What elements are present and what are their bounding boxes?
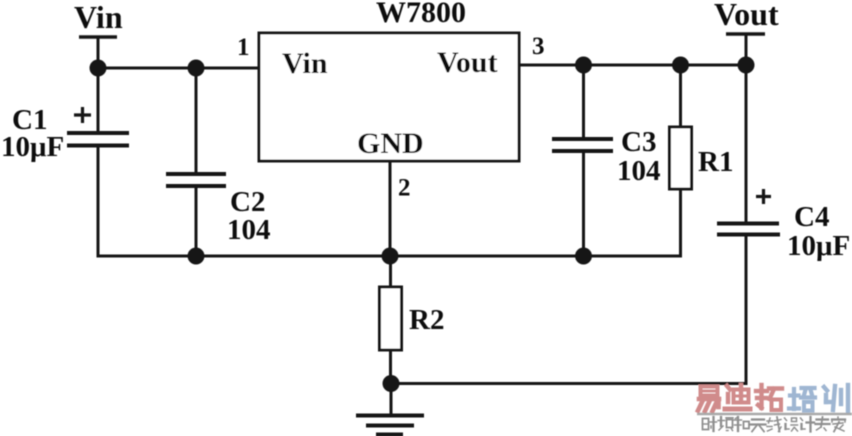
wire C1 bottom lead [97, 145, 100, 258]
wire C3 top lead [582, 65, 585, 139]
tagline char 和 [734, 417, 749, 431]
svg-text:C3: C3 [621, 126, 656, 158]
resistor R1 body [670, 127, 692, 189]
node junction dots [90, 57, 755, 393]
svg-text:1: 1 [237, 34, 250, 61]
wire C2 bottom lead [195, 186, 198, 256]
watermark logo 易迪拓培训 (drawn glyphs) [698, 385, 848, 411]
capacitor C1 polarity plus [74, 107, 91, 123]
svg-text:Vin: Vin [282, 47, 328, 80]
tagline char 频 [718, 417, 733, 431]
node R1 tap top [672, 57, 689, 74]
tagline char 家 [832, 417, 845, 432]
node Vout terminal bar [726, 32, 765, 36]
tagline char 计 [801, 417, 815, 432]
wire ground lead [390, 384, 393, 416]
wire R2 top lead [389, 256, 392, 287]
capacitor C4 polarity plus [756, 189, 771, 204]
wire C3 bottom lead [582, 151, 585, 256]
wire R1 top lead [679, 65, 682, 127]
svg-text:10μF: 10μF [1, 131, 64, 163]
wire C1 top lead [97, 68, 100, 133]
node Vout / C4 [738, 57, 755, 74]
wire R2 bottom lead [389, 350, 392, 384]
node rail GND pin [382, 248, 399, 265]
node C3 tap top [575, 57, 592, 74]
op-amp U1 regulator box W7800 [259, 33, 519, 161]
svg-text:Vin: Vin [74, 0, 123, 35]
capacitor C3 plates [552, 139, 613, 151]
svg-text:104: 104 [227, 214, 271, 246]
tagline char 线 [767, 417, 781, 432]
tagline char 专 [816, 417, 830, 431]
wire top-left horizontal (Vin node to pin 1) [97, 67, 260, 70]
svg-text:3: 3 [532, 33, 545, 60]
svg-text:2: 2 [398, 175, 411, 202]
wire C2 top lead [195, 68, 198, 174]
svg-text:10μF: 10μF [787, 230, 850, 262]
svg-text:104: 104 [617, 155, 661, 187]
node rail C2 [188, 248, 205, 265]
svg-text:R2: R2 [409, 304, 444, 336]
svg-text:R1: R1 [698, 146, 733, 178]
wire lower horizontal (R2 to C4) [391, 382, 746, 385]
capacitor C2 plates [166, 174, 226, 186]
resistor R2 body [380, 287, 402, 350]
node R2 bottom / ground [383, 375, 400, 392]
wire C4 top lead (from Vout node) [745, 65, 748, 224]
wire Vout terminal to junction [745, 34, 748, 65]
svg-text:GND: GND [357, 127, 424, 160]
wire R1 bottom lead [679, 189, 682, 258]
wire GND pin 2 lead [389, 161, 392, 256]
wire Vin terminal to junction [97, 37, 100, 68]
node Vin terminal bar [79, 35, 117, 39]
svg-text:C4: C4 [794, 201, 829, 233]
tagline char 天 [751, 420, 766, 432]
watermark char 训 [824, 385, 848, 411]
tagline char 射 [703, 417, 717, 431]
svg-text:W7800: W7800 [376, 0, 466, 29]
watermark underline [697, 413, 852, 416]
tagline char 设 [785, 418, 798, 431]
watermark char 培 [789, 388, 815, 411]
ground [356, 416, 424, 435]
wire pin 3 horizontal (to Vout node) [519, 64, 746, 67]
node Vin rail / C1 [90, 60, 107, 77]
svg-text:Vout: Vout [714, 0, 779, 32]
wire bottom rail [97, 255, 681, 258]
node rail C3 [575, 248, 592, 265]
watermark char 易 [698, 387, 719, 412]
capacitor C4 plates [717, 224, 780, 235]
svg-text:Vout: Vout [437, 46, 498, 79]
capacitor C1 plates [67, 133, 129, 146]
watermark tagline 射频和天线设计专家 (drawn glyphs) [703, 417, 846, 432]
wire C4 bottom lead [745, 235, 748, 386]
node C2 tap [188, 60, 205, 77]
watermark char 迪 [725, 385, 750, 409]
watermark char 拓 [756, 385, 782, 410]
